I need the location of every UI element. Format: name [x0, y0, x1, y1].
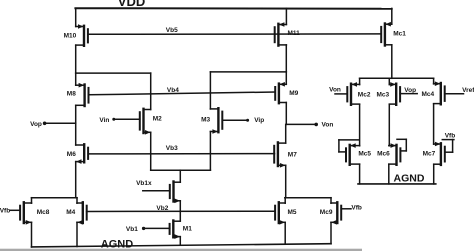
svg-text:Mc4: Mc4	[422, 91, 435, 98]
svg-text:Mc5: Mc5	[358, 150, 371, 157]
svg-text:Mc9: Mc9	[320, 209, 333, 216]
svg-text:Vfb: Vfb	[445, 133, 456, 140]
label Mc3	[377, 91, 390, 98]
transistor Mc7	[434, 142, 445, 165]
label M7	[288, 151, 297, 158]
label M2	[153, 116, 162, 123]
wire node tee right	[210, 71, 286, 73]
label Vop	[30, 121, 42, 128]
wire M8 drain to M6	[75, 105, 77, 145]
label Vb3	[166, 145, 178, 152]
wire M5 source down	[284, 222, 286, 244]
transistor Mc4	[434, 81, 464, 104]
label M1	[183, 226, 192, 233]
svg-text:Mc6: Mc6	[377, 150, 390, 157]
wire Mc9 source down	[330, 222, 332, 243]
wire Mc2 drain down	[359, 104, 361, 145]
svg-text:Vb4: Vb4	[167, 87, 179, 94]
transistor Mc9	[331, 202, 351, 224]
transistor M3	[210, 108, 222, 134]
net label VDD	[118, 0, 145, 9]
wire Mc7 source down	[433, 164, 435, 184]
label M8	[67, 90, 76, 97]
label Mc2	[358, 92, 371, 99]
svg-text:Von: Von	[322, 122, 334, 129]
wire M11 source to VDD	[285, 8, 287, 24]
transistor M5	[275, 202, 285, 224]
wire Mc1 source to VDD	[391, 8, 393, 24]
bias line Vb5	[88, 33, 381, 35]
label Mc7	[423, 150, 436, 157]
label Vb2	[156, 205, 168, 212]
svg-text:Mc3: Mc3	[377, 91, 390, 98]
wire M5 Mc9 drain node	[285, 197, 331, 199]
wire M4 source to ground rail	[76, 222, 78, 246]
svg-text:Vb2: Vb2	[156, 205, 168, 212]
wire M9 drain to Von	[285, 103, 287, 125]
bias line Vb2	[87, 210, 276, 212]
wire Mc1 drain down	[391, 45, 393, 79]
wire Mc6 diode loop	[397, 139, 406, 151]
wire Mc7 gate to Vfb	[442, 140, 454, 153]
transistor M8	[76, 83, 89, 106]
label Mc4	[422, 91, 435, 98]
svg-text:M11: M11	[288, 30, 301, 37]
power rail VDD	[75, 7, 391, 10]
transistor M1	[170, 221, 181, 239]
label Mc1	[393, 31, 406, 38]
svg-text:Vop: Vop	[30, 121, 42, 128]
svg-text:Vin: Vin	[99, 117, 109, 124]
wire M3 source down	[209, 132, 211, 171]
wire Mc4 drain down	[433, 104, 435, 144]
svg-text:Mc1: Mc1	[393, 31, 406, 38]
transistor M9	[275, 82, 286, 103]
svg-text:Vfb: Vfb	[351, 204, 362, 211]
transistor Mc3	[389, 82, 417, 105]
svg-text:VDD: VDD	[118, 0, 145, 9]
label Vb5	[166, 27, 178, 34]
transistor Mc2	[335, 82, 360, 105]
svg-text:M7: M7	[288, 151, 297, 158]
label Mc6	[377, 150, 390, 157]
wire M7 drain down	[285, 165, 287, 197]
svg-text:Von: Von	[329, 87, 341, 94]
label Vb1x	[136, 180, 152, 187]
transistor M6	[76, 144, 88, 164]
svg-text:M1: M1	[183, 226, 192, 233]
label AGND	[101, 239, 133, 251]
transistor MB1X	[143, 182, 181, 204]
wire Mc6 source down	[388, 164, 390, 184]
bias line Vb3	[88, 153, 274, 155]
svg-text:Vfb: Vfb	[0, 208, 10, 215]
bias line Vb4	[89, 92, 275, 95]
transistor Mc5	[346, 143, 360, 165]
svg-text:Vb5: Vb5	[166, 27, 178, 34]
node Vin input	[99, 117, 139, 124]
wire node to Mc9 drain	[330, 198, 332, 204]
transistor M11	[275, 22, 287, 45]
label M3	[201, 116, 210, 123]
label Vfb bottom right	[351, 204, 362, 211]
wire M6 drain down	[75, 162, 77, 198]
wire node tee left	[76, 72, 151, 74]
svg-text:Vb1: Vb1	[126, 226, 138, 233]
wire Mc8 source to ground rail	[31, 222, 33, 247]
label M5	[288, 209, 297, 216]
wire Mc8 M4 drain node	[32, 197, 78, 199]
label Vb4	[167, 87, 179, 94]
wire VDD to M10 source	[75, 8, 77, 26]
wire MB1X source to M1 drain	[179, 201, 181, 221]
transistor M10	[76, 24, 88, 46]
ground rail AGND CMFB	[358, 183, 436, 185]
label Mc5	[358, 150, 371, 157]
svg-text:Mc2: Mc2	[358, 92, 371, 99]
wire CMFB top rail	[360, 77, 434, 79]
wire Mc4 source up	[433, 78, 435, 84]
wire Mc2 source up	[359, 78, 361, 84]
transistor M7	[274, 142, 286, 167]
wire node to M4 drain	[76, 198, 78, 204]
wire to M2 drain	[150, 73, 152, 109]
node Von output	[286, 123, 318, 127]
label Mc8	[37, 209, 50, 216]
wire Mc3 drain down	[388, 104, 390, 145]
svg-text:M2: M2	[153, 116, 162, 123]
transistor M4	[77, 202, 87, 224]
wire Mc5 source down	[359, 164, 361, 184]
node Vb1 input	[126, 226, 170, 233]
wire right column to M9	[285, 72, 287, 84]
wire left column to M8	[75, 73, 77, 85]
svg-text:Vop: Vop	[404, 87, 416, 94]
label Vfb CMFB	[445, 133, 456, 140]
svg-text:M3: M3	[201, 116, 210, 123]
svg-text:Vb3: Vb3	[166, 145, 178, 152]
wire Mc3 source up	[388, 78, 390, 84]
svg-text:Mc7: Mc7	[423, 150, 436, 157]
label M11	[288, 30, 301, 37]
wire tail to Vb1x transistor	[179, 170, 181, 182]
svg-text:M4: M4	[66, 209, 75, 216]
wire M1 source down	[179, 237, 181, 246]
label Von	[322, 122, 334, 129]
wire Von to M7	[285, 124, 287, 143]
svg-text:Vip: Vip	[254, 117, 264, 124]
label M4	[66, 209, 75, 216]
wire tail node	[151, 169, 211, 171]
svg-text:M5: M5	[288, 209, 297, 216]
wire node to M5 drain	[284, 198, 286, 204]
label Vref	[462, 87, 474, 94]
transistor Mc1	[381, 22, 392, 46]
svg-text:Vb1x: Vb1x	[136, 180, 152, 187]
label AGND CMFB	[394, 172, 425, 184]
svg-text:AGND: AGND	[394, 172, 425, 184]
scan artifact band	[0, 249, 362, 251]
node Vip input	[222, 117, 264, 124]
ground rail AGND	[32, 244, 332, 247]
svg-text:Vref: Vref	[462, 87, 474, 94]
svg-text:M10: M10	[64, 32, 77, 39]
svg-text:M8: M8	[67, 90, 76, 97]
label Vop CMFB	[404, 87, 416, 94]
label M10	[64, 32, 77, 39]
wire M10 drain down	[75, 45, 77, 73]
label Von CMFB	[329, 87, 341, 94]
wire Mc5 diode loop	[339, 140, 359, 152]
svg-text:M6: M6	[67, 151, 76, 158]
label M9	[289, 90, 298, 97]
transistor M2	[140, 109, 151, 135]
label Mc9	[320, 209, 333, 216]
svg-text:M9: M9	[289, 90, 298, 97]
wire M11 drain down	[285, 45, 287, 72]
node Vop output	[43, 122, 76, 126]
wire node to Mc8 drain	[31, 198, 33, 204]
wire M2 source down	[150, 132, 152, 170]
transistor Mc6	[389, 143, 401, 165]
wire to M3 drain	[209, 72, 211, 109]
svg-text:Mc8: Mc8	[37, 209, 50, 216]
label Vfb left	[0, 208, 10, 215]
transistor Mc8	[11, 202, 32, 224]
label M6	[67, 151, 76, 158]
